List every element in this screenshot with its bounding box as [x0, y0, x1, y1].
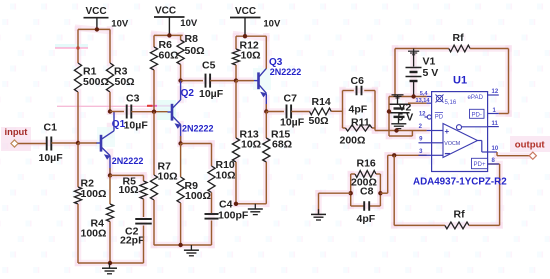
U1 right pin stubs: [488, 94, 499, 96]
U1 internal wires: [432, 130, 443, 132]
resistor R8: [177, 40, 184, 65]
svg-text:10Ω: 10Ω: [216, 170, 236, 182]
wire R2 bottom: [77, 204, 79, 263]
wire R16C8 left vertical: [350, 174, 352, 206]
svg-text:100Ω: 100Ω: [81, 188, 107, 200]
svg-text:10µF: 10µF: [39, 152, 64, 164]
wire C5 left: [181, 80, 203, 82]
wire collector Q3: [265, 36, 267, 69]
wire C4 bottom: [211, 221, 213, 246]
svg-text:PD: PD: [435, 115, 444, 121]
svg-text:PD+: PD+: [473, 161, 485, 168]
ground stage3: [254, 204, 256, 209]
svg-text:4pF: 4pF: [349, 104, 368, 116]
svg-text:12: 12: [492, 89, 499, 95]
wire R3 to collector node: [109, 92, 111, 112]
wire R12 bottom to base node: [235, 65, 237, 81]
wire C5 to stage3: [210, 80, 236, 82]
wire collector Q2: [180, 81, 182, 100]
svg-text:10Ω: 10Ω: [158, 171, 178, 183]
wire rail2: [154, 34, 183, 36]
svg-text:5,4: 5,4: [420, 91, 429, 97]
wire C3 left: [110, 111, 124, 113]
svg-text:10V: 10V: [263, 19, 281, 30]
svg-text:VOCM: VOCM: [444, 141, 460, 147]
resistor R1: [74, 63, 81, 92]
wire rail1: [78, 28, 110, 30]
resistor R12: [232, 49, 239, 65]
wire collector: [113, 112, 115, 131]
wire emitter to node: [109, 156, 111, 176]
svg-text:10Ω: 10Ω: [119, 184, 139, 196]
svg-text:100Ω: 100Ω: [81, 228, 107, 240]
svg-text:10V: 10V: [111, 19, 129, 30]
svg-text:4pF: 4pF: [357, 213, 376, 225]
wire R5 to C2: [143, 199, 145, 217]
ground stage1: [109, 263, 111, 268]
svg-text:10Ω: 10Ω: [241, 50, 261, 62]
wire R13 bottom: [235, 162, 237, 204]
wire Rf bottom right: [469, 224, 500, 226]
node output terminal: [496, 152, 498, 156]
wire Rf top down to pin1: [508, 49, 510, 114]
wire -Vs: [408, 102, 427, 104]
capacitor C2: [135, 218, 152, 220]
svg-text:5 V: 5 V: [423, 67, 439, 79]
svg-text:Rf: Rf: [453, 32, 465, 44]
wire rail2 bottom: [154, 244, 212, 246]
svg-text:10µF: 10µF: [124, 119, 149, 131]
svg-text:10Ω: 10Ω: [241, 139, 261, 151]
svg-text:500Ω: 500Ω: [83, 76, 109, 88]
wire top corner vertical: [394, 49, 396, 97]
capacitor C4: [205, 213, 219, 215]
wire C6R11 left vertical: [342, 91, 344, 129]
svg-text:U1: U1: [453, 75, 467, 87]
wire R14 to C6/R11: [331, 110, 342, 112]
transistor Q2: [171, 104, 174, 121]
wire node to R5: [110, 174, 144, 176]
wire C3 to Q2 base: [131, 111, 167, 113]
wire node to R2: [77, 143, 79, 187]
wire rail3 bottom: [236, 203, 266, 205]
svg-text:11: 11: [492, 121, 499, 127]
svg-text:C3: C3: [126, 93, 140, 105]
capacitor C3: [126, 105, 128, 119]
U1 left pin stubs: [427, 96, 432, 98]
svg-text:ePAD: ePAD: [468, 94, 484, 101]
wire input to C1: [18, 143, 46, 145]
resistor R10: [208, 166, 215, 193]
wire emitter Q2 to node: [180, 125, 182, 144]
resistor R5: [143, 175, 145, 181]
svg-text:C7: C7: [284, 93, 298, 105]
ground stage2: [190, 245, 192, 250]
wire R16C8 node to pin3 net: [378, 191, 382, 195]
svg-text:V1: V1: [423, 56, 436, 68]
wire R16C8 right vertical: [379, 174, 381, 206]
capacitor C1: [46, 137, 48, 151]
svg-text:50Ω: 50Ω: [309, 115, 329, 127]
svg-text:Q2: Q2: [181, 88, 195, 99]
wire rail1 bottom: [78, 262, 144, 264]
svg-text:12: 12: [419, 112, 426, 118]
wire R4 bottom: [109, 222, 111, 263]
svg-text:ADA4937-1YCPZ-R2: ADA4937-1YCPZ-R2: [413, 176, 507, 187]
wire node to R9: [180, 144, 182, 178]
svg-text:60Ω: 60Ω: [159, 50, 179, 62]
U1 PD+ block: [472, 158, 488, 168]
wire R8 bottom to collector node: [180, 65, 182, 81]
svg-text:C6: C6: [351, 75, 365, 87]
svg-text:10: 10: [492, 146, 499, 152]
svg-text:VCC: VCC: [155, 6, 176, 17]
svg-text:100pF: 100pF: [218, 210, 249, 222]
wire bracket: [388, 97, 390, 137]
svg-text:2N2222: 2N2222: [270, 67, 302, 77]
wire to pin1 stub: [499, 113, 509, 115]
wire R6 bottom to base node: [153, 70, 155, 112]
svg-text:5,16: 5,16: [445, 100, 457, 106]
wire C6 branch: [343, 90, 354, 92]
svg-text:100Ω: 100Ω: [185, 190, 211, 202]
svg-text:output: output: [515, 140, 546, 151]
wire Rf top right: [470, 48, 508, 50]
svg-text:68Ω: 68Ω: [272, 139, 292, 151]
svg-text:R8: R8: [185, 33, 199, 45]
wire-highlight layer: [78, 28, 110, 31]
svg-text:VCC: VCC: [235, 6, 256, 17]
wire Rf bottom left vertical: [393, 155, 395, 225]
wire pin8 stub link: [488, 163, 500, 165]
U1 out circle: [457, 125, 462, 130]
wire R12 top: [235, 36, 237, 49]
wire C1 to base node: [51, 142, 78, 144]
wire R1 bottom to node: [77, 92, 79, 143]
wire R3 top: [109, 29, 111, 63]
wire C7 left: [266, 111, 284, 113]
svg-text:200Ω: 200Ω: [340, 135, 366, 147]
artifact net markers: [55, 44, 88, 48]
wire C7 to R14: [291, 111, 309, 113]
resistor R15: [263, 138, 270, 162]
U1 amp triangle: [443, 124, 478, 158]
battery V1: [413, 49, 415, 67]
resistor R6: [150, 47, 157, 70]
svg-text:C8: C8: [360, 186, 374, 198]
wire emitter Q3 to node: [265, 93, 267, 111]
wire base: [78, 142, 97, 144]
wire R8 top: [180, 35, 182, 40]
wire R15 bottom: [265, 162, 267, 204]
wire R16C8 to ground: [349, 191, 353, 195]
wire R6 top: [153, 35, 155, 47]
U1 supply glyph: [436, 95, 442, 101]
transistor Q3: [257, 72, 260, 89]
svg-text:Rf: Rf: [454, 209, 466, 221]
svg-text:2N2222: 2N2222: [112, 156, 144, 166]
wire rail3: [236, 35, 266, 37]
wire +in net: [375, 130, 427, 132]
wire node to R4: [109, 175, 111, 204]
svg-text:+: +: [445, 127, 450, 136]
ground R16C8: [318, 209, 320, 214]
svg-text:R16: R16: [357, 158, 376, 170]
wire node to R10: [181, 143, 212, 145]
svg-text:13,14: 13,14: [416, 98, 431, 104]
resistor R13: [232, 138, 239, 162]
wire node to R13 (via R12 column): [235, 81, 237, 138]
wire C2 bottom: [143, 226, 145, 264]
capacitor C5: [205, 74, 207, 88]
svg-text:10µF: 10µF: [199, 88, 224, 100]
resistor R3: [106, 63, 113, 92]
ground V2: [391, 123, 406, 125]
wire base Q3: [236, 80, 254, 82]
resistor Rf top: [449, 45, 470, 52]
svg-text:input: input: [5, 126, 28, 137]
svg-text:2N2222: 2N2222: [182, 124, 214, 134]
wire C6R11 right vertical: [374, 91, 376, 131]
wire Rf bottom left: [394, 224, 445, 226]
svg-text:22pF: 22pF: [120, 235, 145, 247]
svg-text:VCC: VCC: [85, 6, 106, 17]
svg-text:R14: R14: [312, 96, 331, 108]
resistor R2: [74, 187, 81, 204]
resistor R14: [310, 108, 332, 115]
wire R10 to C4: [211, 193, 213, 214]
resistor R9: [177, 177, 184, 203]
wire Rf top left: [395, 48, 449, 50]
wire R10 top: [211, 144, 213, 167]
battery V2: [392, 94, 404, 96]
svg-text:50Ω: 50Ω: [185, 45, 205, 57]
resistor R7: [150, 175, 157, 200]
svg-text:50Ω: 50Ω: [115, 76, 135, 88]
wire +Vs: [389, 96, 427, 98]
svg-text:10V: 10V: [180, 18, 198, 29]
wire R1 top: [77, 29, 79, 63]
capacitor C6: [356, 86, 358, 96]
wire R9 bottom: [180, 203, 182, 245]
resistor R4: [106, 204, 113, 222]
wire to -in pin3: [388, 154, 427, 156]
transistor Q1: [100, 135, 103, 152]
wire R7 bottom: [153, 200, 155, 245]
svg-text:5 V: 5 V: [398, 112, 414, 124]
capacitor C7: [286, 105, 288, 119]
resistor Rf bottom: [445, 222, 469, 229]
svg-text:PD-: PD-: [471, 111, 482, 118]
wire Rf bottom to pin8: [499, 164, 501, 225]
svg-text:10µF: 10µF: [280, 117, 305, 129]
svg-text:C1: C1: [44, 122, 58, 134]
svg-text:C5: C5: [202, 59, 216, 71]
wire node to R15: [265, 112, 267, 139]
U1 PD- block: [470, 109, 485, 118]
wire base node down to R7: [153, 112, 155, 175]
